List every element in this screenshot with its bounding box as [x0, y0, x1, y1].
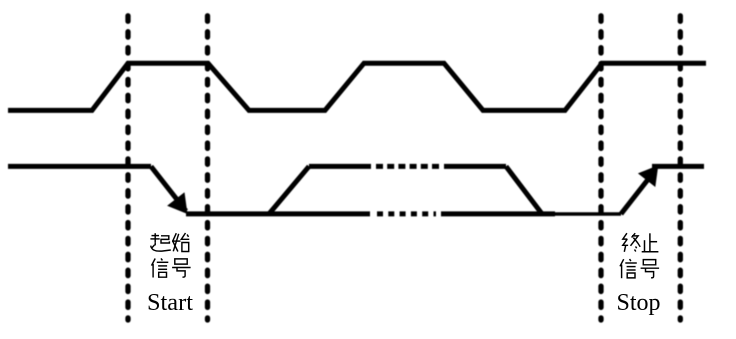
SDA data high segment (left, before start)	[8, 164, 151, 169]
SDA low rail thin segment	[555, 212, 621, 216]
SDA data rising transition	[269, 166, 309, 214]
SDA low rail solid (right)	[441, 211, 555, 216]
SDA low rail solid (after start)	[186, 211, 370, 216]
svg-text:Stop: Stop	[617, 290, 661, 316]
SCL clock waveform (top trace)	[8, 63, 706, 110]
SDA high rail solid (right)	[444, 164, 506, 169]
label 终止 (stop chinese line 1)	[623, 233, 640, 252]
SDA rising edge (stop condition)	[621, 171, 655, 214]
svg-text:Start: Start	[147, 290, 193, 316]
SDA data falling transition	[506, 166, 542, 214]
label 起始 (start chinese line 1)	[150, 233, 170, 251]
SDA high rail dotted continuation	[376, 164, 441, 169]
dashed timing marker line 1 (start region left)	[125, 16, 130, 320]
stop arrowhead	[638, 165, 658, 187]
SDA high segment (right, after stop)	[652, 164, 704, 169]
label 信号 (start chinese line 2)	[152, 258, 169, 277]
start arrowhead	[167, 192, 187, 214]
SDA high rail solid (left)	[309, 164, 371, 169]
dashed timing marker line 4 (stop region right)	[678, 16, 683, 320]
label 信号 (stop chinese line 2)	[620, 259, 637, 278]
dashed timing marker line 3 (stop region left)	[598, 16, 603, 320]
SDA falling edge (start condition)	[151, 166, 186, 211]
SDA low rail dotted continuation	[377, 211, 436, 216]
dashed timing marker line 2 (start region right)	[205, 16, 210, 320]
